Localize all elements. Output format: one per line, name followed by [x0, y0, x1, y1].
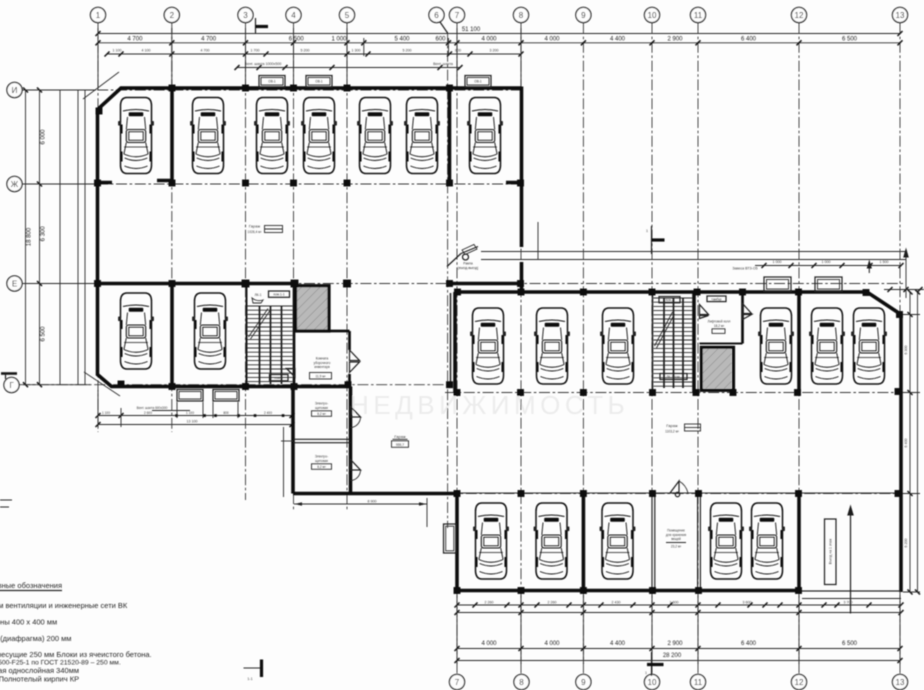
svg-text:3 700: 3 700: [844, 600, 853, 604]
svg-text:несущие 250 мм Блоки из ячеи: несущие 250 мм Блоки из ячеистого бетона…: [0, 650, 152, 659]
svg-text:9: 9: [581, 11, 586, 20]
grid axis 5 vertical: [346, 23, 348, 510]
car 9: [192, 293, 228, 369]
car 4: [301, 98, 337, 174]
svg-text:5: 5: [345, 11, 350, 20]
svg-text:1 000: 1 000: [331, 36, 347, 42]
svg-text:6 300: 6 300: [41, 226, 47, 242]
top dim row overall 51100: [98, 33, 900, 35]
section mark top axis10: [651, 226, 653, 254]
grid axis 1 vertical: [97, 23, 99, 432]
columns top wall row: [95, 85, 903, 594]
car 2: [190, 98, 226, 174]
grid axis 10 vertical: [651, 23, 653, 674]
lower block row line y392: [445, 392, 905, 394]
svg-text:6 400: 6 400: [741, 641, 757, 647]
bottom dim row 2: [457, 612, 901, 614]
upper elevator shaft: [297, 287, 328, 330]
svg-text:1 500: 1 500: [880, 260, 889, 264]
grid axis G horizontal: [19, 384, 452, 386]
cleaning room walls: [331, 331, 350, 387]
grid axis 9 vertical: [582, 23, 584, 674]
svg-text:1: 1: [645, 671, 647, 675]
svg-text:1 700: 1 700: [251, 49, 260, 53]
middle section bottom wall: [293, 492, 455, 496]
svg-text:2 900: 2 900: [667, 641, 683, 647]
grid axis 13 vertical: [899, 23, 901, 674]
upper block outer walls: [98, 88, 522, 387]
svg-text:11: 11: [694, 11, 703, 20]
svg-text:6 500: 6 500: [289, 36, 305, 42]
lower stair stringers: [664, 298, 683, 388]
bottom extension lines: [457, 595, 900, 664]
grid axis 12 vertical: [798, 23, 800, 674]
svg-text:5 200: 5 200: [403, 49, 412, 53]
lane arrow right: [903, 248, 909, 258]
svg-text:ЛК-1: ЛК-1: [255, 293, 262, 297]
vestibule doors: [700, 305, 709, 319]
axis bubbles bottom: [449, 674, 907, 689]
svg-text:18 800: 18 800: [27, 227, 33, 246]
left extension lines: [23, 90, 96, 385]
car 17: [534, 503, 570, 579]
svg-text:1-1: 1-1: [247, 677, 252, 681]
interior wall axis12 upper: [797, 292, 801, 393]
electrical rooms divider: [293, 439, 351, 442]
svg-text:6 300: 6 300: [904, 346, 908, 355]
svg-text:4 700: 4 700: [201, 36, 217, 42]
svg-text:6 000: 6 000: [41, 129, 47, 145]
svg-text:- Полнотелый кирпич КР: - Полнотелый кирпич КР: [0, 675, 79, 684]
svg-text:4 400: 4 400: [610, 641, 626, 647]
svg-text:(въезд-выезд): (въезд-выезд): [458, 266, 479, 270]
svg-text:1 100: 1 100: [186, 411, 194, 415]
svg-text:4 700: 4 700: [201, 49, 210, 53]
stair/elevator divider wall: [293, 284, 296, 387]
svg-text:вещей: вещей: [671, 537, 681, 541]
svg-text:Гараж: Гараж: [249, 224, 261, 229]
svg-text:3: 3: [243, 11, 248, 20]
svg-text:ЛК-2 пом.: ЛК-2 пом.: [666, 375, 680, 379]
bay wall axis9: [582, 494, 586, 591]
lower block top wall with chamfer: [455, 292, 901, 592]
cleaning room door: [350, 350, 360, 373]
svg-text:Вент. шахта: Вент. шахта: [433, 62, 453, 66]
lower stair cut line: [655, 312, 675, 348]
svg-text:систем вентиляции и инженерные: систем вентиляции и инженерные сети ВК: [0, 601, 128, 610]
svg-text:щитовая: щитовая: [315, 459, 328, 463]
car 14: [809, 308, 845, 384]
lower stair right wall: [692, 292, 696, 393]
svg-text:1103,2 м²: 1103,2 м²: [665, 429, 679, 433]
svg-text:1 600: 1 600: [670, 600, 679, 604]
svg-text:7: 7: [455, 11, 460, 20]
svg-text:пом.1-1: пом.1-1: [273, 293, 284, 297]
svg-text:4 700: 4 700: [127, 36, 143, 42]
svg-text:28 200: 28 200: [663, 653, 682, 659]
grid axis Zh horizontal: [22, 183, 521, 185]
grid axis 4 vertical: [293, 23, 295, 510]
interior wall axis12 lower: [797, 493, 801, 593]
top extension lines: [98, 28, 521, 87]
lower stair label boxes: [659, 297, 680, 303]
svg-text:13: 13: [896, 11, 905, 20]
svg-text:1: 1: [96, 11, 101, 20]
svg-text:800: 800: [223, 411, 229, 415]
upper interior wall axis2 bottom: [170, 284, 174, 387]
svg-text:10: 10: [648, 678, 657, 687]
car 19: [708, 503, 744, 579]
svg-text:И: И: [12, 86, 18, 95]
svg-text:6 500: 6 500: [842, 36, 858, 42]
middle section right wall: [349, 387, 353, 494]
svg-text:6,2 м²: 6,2 м²: [317, 465, 326, 469]
storage room walls: [652, 494, 700, 591]
columns E row: [95, 281, 101, 287]
bottom main dims: [457, 648, 900, 650]
svg-text:оны 400 х 400 мм: оны 400 х 400 мм: [0, 618, 57, 627]
stair-side door: [287, 369, 296, 378]
car 7: [467, 98, 503, 174]
columns y392 row: [454, 390, 460, 396]
svg-text:1026,4 м²: 1026,4 м²: [248, 230, 262, 234]
svg-text:4 000: 4 000: [481, 641, 497, 647]
lower stair treads: [654, 298, 693, 386]
svg-text:4 000: 4 000: [544, 36, 560, 42]
svg-text:2 400: 2 400: [264, 411, 272, 415]
vent boxes above top wall: [259, 76, 285, 88]
svg-text:12: 12: [795, 678, 804, 687]
columns lower top wall row: [455, 289, 461, 295]
svg-text:2 600: 2 600: [144, 411, 152, 415]
svg-text:пом.1: пом.1: [275, 376, 284, 380]
svg-text:1 000: 1 000: [773, 260, 782, 264]
car 8 upper bottom row: [118, 293, 154, 369]
svg-text:Г: Г: [9, 381, 14, 390]
svg-text:3 600: 3 600: [743, 600, 752, 604]
svg-text:1 100: 1 100: [102, 411, 110, 415]
svg-text:4 000: 4 000: [544, 641, 560, 647]
svg-text:51 100: 51 100: [462, 27, 481, 33]
svg-text:4 000: 4 000: [481, 36, 497, 42]
columns y493 row: [454, 491, 460, 497]
svg-text:2 260: 2 260: [485, 600, 494, 604]
car 1 upper top row: [118, 98, 154, 174]
top dim row axis distances: [98, 42, 900, 44]
svg-text:ОВ-1: ОВ-1: [315, 80, 323, 84]
left side vent shaft: [444, 524, 457, 553]
section mark bottom axis10: [651, 652, 653, 676]
svg-text:9: 9: [581, 678, 586, 687]
svg-text:ОВ-1: ОВ-1: [474, 80, 482, 84]
svg-text:12: 12: [795, 11, 804, 20]
middle section left wall: [291, 387, 295, 494]
vent boxes on lower top wall: [764, 277, 791, 292]
upper interior wall axis6-7 top: [448, 88, 452, 181]
entry barrier: [463, 254, 469, 260]
svg-text:11: 11: [694, 678, 703, 687]
upper stair stringers: [260, 306, 282, 384]
car 11: [534, 308, 570, 384]
columns G row: [118, 381, 124, 387]
column chamfer end: [96, 108, 102, 114]
svg-text:6 200: 6 200: [904, 539, 908, 548]
svg-text:1 300: 1 300: [352, 49, 361, 53]
car 3: [254, 98, 290, 174]
grid axis 7 vertical: [456, 23, 458, 674]
svg-text:10: 10: [648, 11, 657, 20]
car 18: [600, 503, 636, 579]
svg-text:1 000: 1 000: [822, 260, 831, 264]
stair left wall upper block: [246, 284, 248, 387]
ramp approach line: [802, 598, 901, 600]
svg-text:23,2 м²: 23,2 м²: [671, 545, 681, 549]
ramp direction arrow: [850, 512, 852, 614]
vent boxes below bottom wall: [177, 390, 203, 402]
Zh line wall stubs: [98, 181, 522, 185]
chamfer extension marks: [83, 72, 120, 396]
svg-text:13 100: 13 100: [187, 420, 198, 424]
svg-text:инвентаря: инвентаря: [314, 365, 330, 369]
svg-text:НЕДВИЖИМОСТЬ: НЕДВИЖИМОСТЬ: [350, 390, 629, 420]
svg-text:2 430: 2 430: [612, 600, 621, 604]
legend small marks left edge: [0, 500, 12, 507]
svg-text:2: 2: [170, 11, 175, 20]
svg-text:4 100: 4 100: [142, 49, 151, 53]
svg-text:2 900: 2 900: [667, 36, 683, 42]
svg-text:8 900: 8 900: [368, 499, 377, 503]
svg-text:Вент. шахта 600х300: Вент. шахта 600х300: [137, 406, 168, 410]
upper block right wall with ramp opening: [520, 87, 524, 292]
svg-text:6 400: 6 400: [904, 439, 908, 448]
storage room door: [670, 481, 679, 493]
section mark legend: [244, 667, 263, 669]
upper interior wall axis2 top: [157, 88, 172, 181]
car 6: [404, 98, 440, 174]
grid axis 3 vertical: [245, 23, 247, 500]
electrical room 2 door: [351, 460, 361, 471]
svg-text:6,2 м²: 6,2 м²: [317, 412, 326, 416]
svg-text:8: 8: [519, 11, 524, 20]
svg-text:4: 4: [291, 11, 296, 20]
svg-text:я (диафрагма) 200 мм: я (диафрагма) 200 мм: [0, 634, 71, 643]
left dim axis distances: [39, 90, 41, 385]
E line walls: [98, 282, 522, 286]
electrical room 1 door: [351, 407, 361, 418]
upper stair cut line: [249, 309, 271, 340]
grid axis 11 vertical: [697, 23, 699, 674]
car 5: [357, 98, 393, 174]
svg-text:Гараж: Гараж: [666, 423, 678, 428]
car 16 lower bottom row: [473, 503, 509, 579]
bottom dim row small offsets: [457, 604, 901, 606]
lower-left small dims: [98, 415, 292, 417]
top dim row 4 short: [237, 67, 460, 69]
svg-text:1: 1: [646, 229, 648, 233]
vestibule label box: [707, 296, 726, 302]
grid axis 8 vertical: [520, 23, 522, 674]
middle section lower dims: [284, 427, 428, 527]
svg-text:Въезд на 1 этаж: Въезд на 1 этаж: [829, 538, 833, 564]
svg-text:4 400: 4 400: [610, 36, 626, 42]
lower block left wall lower segment: [455, 494, 459, 591]
row line y493 thin: [457, 492, 901, 494]
ramp lane lines: [481, 252, 906, 299]
svg-text:7: 7: [455, 678, 460, 687]
car 10 lower top row: [470, 308, 506, 384]
lower stair left wall: [652, 292, 654, 393]
lane dim row right: [755, 265, 901, 267]
svg-text:Ж: Ж: [11, 180, 19, 189]
top dim row 3 (wall offsets): [107, 53, 521, 55]
lower block bottom wall: [457, 589, 799, 593]
svg-text:2 260: 2 260: [548, 600, 557, 604]
upper stair label boxes: [269, 291, 290, 297]
svg-text:600: 600: [435, 36, 446, 42]
grid axis I horizontal: [22, 89, 521, 91]
svg-text:щитовая: щитовая: [315, 406, 328, 410]
svg-text:тамбур: тамбур: [711, 297, 722, 301]
svg-text:6: 6: [434, 11, 439, 20]
right dim lines: [909, 292, 911, 592]
lower block row line y493: [447, 493, 905, 495]
car 13: [758, 308, 794, 384]
car 12: [600, 308, 636, 384]
svg-text:5 400: 5 400: [394, 36, 410, 42]
axis bubbles left: [4, 82, 22, 392]
svg-text:6 500: 6 500: [842, 641, 858, 647]
columns Zh row: [95, 180, 101, 186]
benchmark flag at G: [1, 372, 17, 375]
lower block left wall upper segment: [453, 292, 457, 393]
upper stair treads: [248, 306, 293, 382]
section mark top axis3: [255, 18, 257, 34]
svg-text:6 500: 6 500: [41, 326, 47, 342]
svg-text:Условные обозначения: Условные обозначения: [0, 581, 62, 590]
svg-text:3 200: 3 200: [490, 49, 499, 53]
car 15: [851, 308, 887, 384]
grid axis 2 vertical: [171, 23, 173, 432]
svg-text:Гараж: Гараж: [394, 434, 406, 439]
svg-text:1 100: 1 100: [113, 49, 122, 53]
svg-text:Е: Е: [12, 280, 17, 289]
svg-text:5 200: 5 200: [301, 49, 310, 53]
svg-text:18,2 м²: 18,2 м²: [714, 324, 724, 328]
svg-text:8: 8: [519, 678, 524, 687]
svg-text:Вент. шахта 1000х500: Вент. шахта 1000х500: [245, 62, 282, 66]
ramp label box: [825, 519, 837, 585]
axis bubbles top: [90, 7, 907, 33]
bottom overall dim 28200: [457, 660, 900, 662]
svg-text:6 400: 6 400: [741, 36, 757, 42]
car 20: [749, 503, 785, 579]
svg-text:11,9 м²: 11,9 м²: [315, 374, 325, 378]
columns bottom wall row: [454, 588, 460, 594]
svg-text:800: 800: [455, 49, 461, 53]
svg-text:959,7: 959,7: [396, 443, 404, 447]
left dim overall 18800: [25, 90, 27, 385]
svg-text:ОВ-1: ОВ-1: [268, 80, 276, 84]
grid axis E horizontal: [22, 283, 905, 285]
svg-text:пом.2: пом.2: [665, 298, 674, 302]
lower elevator shaft: [703, 349, 732, 389]
svg-text:13: 13: [896, 678, 905, 687]
lower vestibule walls: [741, 292, 744, 344]
grid axis 6 vertical: [447, 32, 449, 528]
svg-text:Завеса ВТЗ-О5: Завеса ВТЗ-О5: [732, 267, 757, 271]
